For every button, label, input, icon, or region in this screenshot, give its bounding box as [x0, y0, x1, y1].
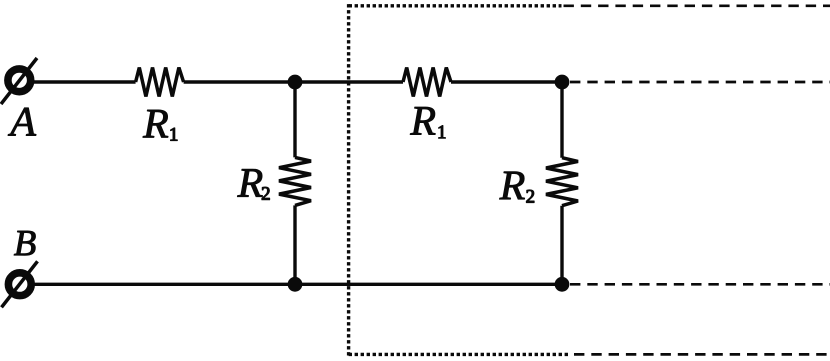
wire node to R1 (second): [295, 80, 403, 83]
node (top-left junction): [288, 75, 303, 90]
wire node down to R2 (right branch): [560, 82, 563, 158]
terminal A: [1, 58, 37, 104]
wire R1 to node: [184, 80, 295, 83]
wire R2 (left) to bottom: [293, 205, 296, 284]
dotted box top edge: [349, 4, 562, 7]
bottom wire B to node to node: [32, 283, 563, 286]
dashed continuation bottom edge: [574, 353, 830, 356]
dashed wire bottom: [570, 283, 830, 286]
label A: [8, 108, 36, 136]
dashed continuation top edge: [564, 4, 830, 7]
terminal B: [2, 261, 38, 307]
label R1 (second): [410, 107, 445, 138]
node (bottom-left junction): [288, 277, 303, 292]
node (bottom-right junction): [555, 277, 570, 292]
label R2 (right): [499, 172, 534, 203]
resistor R1 (left): [136, 68, 184, 97]
label B: [14, 231, 35, 255]
wire node down to R2 (left branch): [293, 82, 296, 157]
wire A to R1: [31, 80, 136, 83]
dotted box left edge: [347, 4, 350, 356]
resistor R1 (second): [403, 68, 451, 97]
dashed wire top: [570, 81, 830, 84]
label R1 (left): [143, 110, 177, 141]
node (top-right junction): [555, 75, 570, 90]
wire R2 (right) to bottom: [560, 206, 563, 285]
wire R1 (second) to node: [451, 80, 562, 83]
dotted box bottom edge: [349, 353, 568, 356]
label R2 (left): [237, 169, 269, 200]
resistor R2 (left): [279, 157, 311, 205]
resistor R2 (right): [546, 158, 578, 206]
